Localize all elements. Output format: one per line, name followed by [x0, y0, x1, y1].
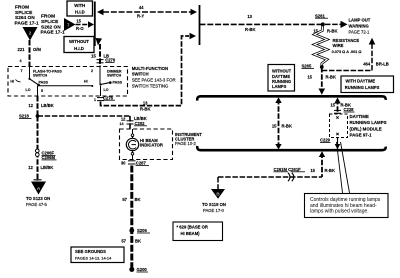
svg-text:13: 13	[143, 101, 148, 106]
svg-text:R-BK: R-BK	[140, 106, 150, 111]
svg-text:PAGE 72-1: PAGE 72-1	[349, 30, 371, 35]
svg-text:30: 30	[121, 160, 126, 165]
svg-text:SWITCH TESTING: SWITCH TESTING	[132, 83, 169, 88]
svg-text:S264 ON: S264 ON	[15, 15, 35, 21]
svg-text:PAGE 17-0: PAGE 17-0	[203, 208, 225, 213]
svg-text:PAGE 10-2: PAGE 10-2	[175, 141, 197, 146]
svg-text:RUNNING LAMPS: RUNNING LAMPS	[345, 85, 380, 90]
svg-text:LB/BK: LB/BK	[41, 165, 54, 170]
svg-text:12: 12	[28, 103, 33, 108]
svg-text:SWITCH: SWITCH	[107, 74, 122, 78]
svg-text:HI BEAM): HI BEAM)	[181, 231, 201, 236]
svg-text:C228: C228	[344, 107, 355, 112]
svg-text:G200: G200	[137, 267, 148, 272]
svg-text:1: 1	[94, 98, 96, 102]
svg-text:BK: BK	[135, 239, 141, 244]
svg-text:C276: C276	[103, 95, 114, 100]
svg-text:O/M: O/M	[33, 47, 41, 52]
svg-text:H.I.D: H.I.D	[75, 9, 85, 14]
svg-text:R-O: R-O	[76, 26, 84, 31]
svg-text:PAGE 97-1: PAGE 97-1	[350, 132, 373, 137]
svg-text:WITHOUT: WITHOUT	[69, 39, 89, 44]
svg-text:2: 2	[91, 69, 93, 73]
svg-text:RUNNING LAMPS: RUNNING LAMPS	[350, 120, 387, 125]
svg-text:R-BK: R-BK	[326, 74, 336, 79]
svg-text:R-BK: R-BK	[327, 29, 337, 34]
svg-text:15: 15	[91, 54, 96, 59]
svg-text:TO S118 ON: TO S118 ON	[202, 202, 226, 207]
svg-text:221: 221	[18, 47, 26, 52]
svg-text:R-BK: R-BK	[282, 123, 292, 128]
svg-text:15: 15	[330, 103, 335, 108]
svg-text:LO: LO	[26, 88, 31, 92]
svg-text:LB/BK: LB/BK	[41, 103, 54, 108]
svg-text:FROM: FROM	[41, 14, 55, 20]
svg-text:PASS: PASS	[113, 81, 123, 85]
svg-text:7: 7	[67, 22, 70, 27]
svg-text:15: 15	[313, 29, 318, 34]
svg-text:BR-LB: BR-LB	[376, 61, 389, 66]
svg-text:SWITCH: SWITCH	[132, 72, 149, 77]
svg-text:WIRE: WIRE	[333, 43, 344, 48]
svg-text:15: 15	[76, 19, 81, 24]
svg-text:12: 12	[121, 116, 126, 121]
svg-text:14: 14	[120, 122, 124, 126]
svg-text:464: 464	[363, 61, 371, 66]
svg-text:12: 12	[28, 165, 33, 170]
svg-text:WITH: WITH	[74, 3, 85, 8]
svg-text:PAGES 14-13, 14-14: PAGES 14-13, 14-14	[75, 255, 112, 260]
svg-text:15: 15	[307, 74, 312, 79]
svg-text:lamps with pulsed voltage.: lamps with pulsed voltage.	[310, 208, 369, 214]
svg-text:INDICATOR: INDICATOR	[140, 143, 163, 148]
svg-text:MULTI-FUNCTION: MULTI-FUNCTION	[132, 66, 168, 71]
svg-text:57: 57	[122, 197, 127, 202]
svg-text:WITH DAYTIME: WITH DAYTIME	[346, 78, 376, 83]
svg-text:PAGE 47-5: PAGE 47-5	[26, 202, 48, 207]
svg-text:PAGE 17-1: PAGE 17-1	[41, 30, 66, 36]
svg-text:R-BK: R-BK	[245, 27, 255, 32]
svg-text:SEE PAGE 143-3 FOR: SEE PAGE 143-3 FOR	[132, 78, 176, 83]
svg-text:7: 7	[21, 69, 23, 73]
svg-text:S262 ON: S262 ON	[41, 24, 61, 30]
svg-text:HI: HI	[84, 79, 88, 83]
svg-text:FROM: FROM	[15, 5, 29, 11]
svg-text:C206M: C206M	[42, 155, 56, 160]
svg-text:0.073 Ω A .001 Ω: 0.073 Ω A .001 Ω	[332, 50, 362, 54]
svg-text:PAGE 17-1: PAGE 17-1	[15, 21, 40, 27]
svg-text:C202: C202	[135, 121, 146, 126]
svg-text:57: 57	[121, 239, 126, 244]
svg-text:LO: LO	[104, 88, 109, 92]
svg-text:15: 15	[272, 123, 277, 128]
svg-text:S206: S206	[137, 228, 147, 233]
svg-text:(DRL) MODULE: (DRL) MODULE	[350, 126, 382, 131]
svg-text:S218: S218	[19, 114, 29, 119]
svg-text:C276: C276	[105, 57, 116, 62]
svg-text:BK: BK	[135, 197, 141, 202]
svg-text:C229: C229	[320, 138, 331, 143]
svg-text:13: 13	[247, 14, 252, 19]
svg-text:* 629 (BASE OR: * 629 (BASE OR	[177, 225, 208, 230]
svg-text:R-BK: R-BK	[325, 168, 335, 173]
svg-text:DAYTIME: DAYTIME	[350, 114, 369, 119]
svg-text:TO S123 ON: TO S123 ON	[26, 196, 50, 201]
svg-text:S265: S265	[302, 64, 312, 69]
svg-text:S261: S261	[315, 13, 325, 18]
svg-text:4: 4	[20, 59, 22, 63]
svg-text:2: 2	[29, 31, 32, 36]
svg-text:H.I.D: H.I.D	[74, 46, 84, 51]
svg-text:WARNING: WARNING	[349, 24, 369, 29]
svg-text:HI: HI	[10, 80, 14, 84]
svg-text:LAMP OUT: LAMP OUT	[349, 18, 371, 23]
svg-text:PASS: PASS	[39, 81, 49, 85]
svg-text:SPLICE: SPLICE	[41, 19, 59, 25]
svg-text:SWITCH: SWITCH	[33, 74, 48, 78]
svg-text:15: 15	[310, 168, 315, 173]
svg-text:C261M C261F: C261M C261F	[274, 167, 302, 172]
svg-text:C287: C287	[136, 160, 147, 165]
svg-text:SEE GROUNDS: SEE GROUNDS	[75, 249, 106, 254]
svg-text:R-Y: R-Y	[137, 13, 144, 18]
svg-text:SPLICE: SPLICE	[15, 10, 33, 16]
svg-text:LAMPS: LAMPS	[272, 84, 287, 89]
svg-text:5: 5	[41, 89, 43, 93]
svg-text:44: 44	[139, 5, 144, 10]
